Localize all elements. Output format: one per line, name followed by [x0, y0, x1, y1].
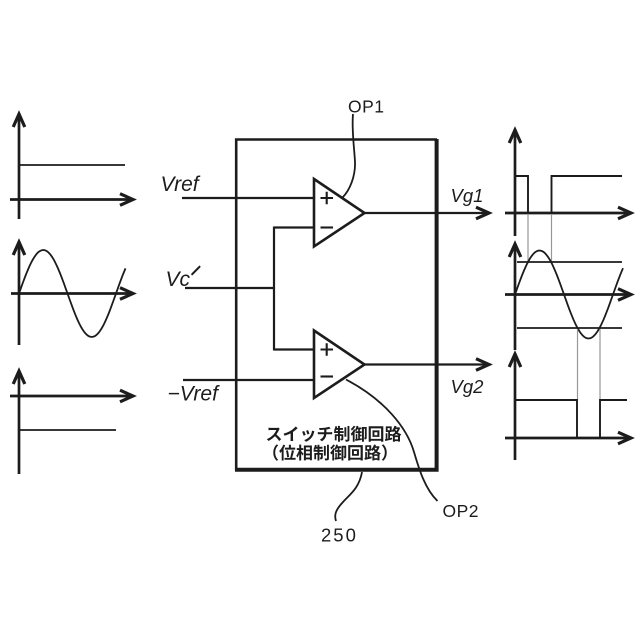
graph R3 x-axis [505, 437, 630, 440]
leader line 250 [335, 472, 362, 521]
wire minus-Vref input [183, 379, 314, 381]
op-amp OP1 plus sign [321, 192, 334, 205]
graph L3 y-axis arrowhead [13, 371, 25, 384]
wire OP2 output Vg2 [365, 363, 488, 365]
wire OP2 non-inverting input [274, 348, 314, 350]
graph L2 (Vc sine) y-axis [18, 244, 21, 345]
op-amp OP1 [314, 179, 365, 247]
block caption line 2 (phase control circuit) [273, 444, 386, 460]
graph R3 y-axis arrowhead [509, 354, 521, 367]
graph R3 x-axis arrowhead [618, 432, 631, 444]
svg-text:OP1: OP1 [348, 97, 385, 117]
block caption line 1 (switch control circuit) [267, 426, 402, 442]
graph R3 (Vg2) y-axis [514, 356, 517, 460]
graph R2 sine wave [515, 251, 623, 339]
arrowhead Vg1 [476, 207, 489, 219]
graph R1 y-axis arrowhead [509, 130, 521, 143]
guide line t3 [577, 329, 579, 400]
graph L2 sine wave [19, 250, 126, 337]
wire vertical tee from Vc to both op-amps [273, 227, 275, 351]
block 250 box (right+bottom heavy edges) [235, 139, 437, 470]
op-amp OP2 minus sign [321, 375, 334, 377]
graph R2 y-axis arrowhead [509, 244, 521, 257]
graph R1 (Vg1) y-axis [514, 132, 517, 236]
graph L3 (minus Vref level) y-axis [18, 373, 21, 474]
graph R1 x-axis [505, 212, 630, 215]
graph R1 x-axis arrowhead [618, 207, 631, 219]
graph L1 y-axis arrowhead [13, 114, 25, 127]
graph R3 Vg2 square wave [515, 400, 627, 438]
arrowhead Vg2 [476, 359, 489, 371]
graph L1 (Vref level) y-axis [18, 116, 21, 219]
svg-text:OP2: OP2 [443, 501, 480, 521]
graph L2 x-axis [11, 292, 132, 295]
guide line t2 [551, 214, 553, 262]
svg-text:Vref: Vref [161, 173, 201, 196]
leader line OP1 [343, 114, 356, 198]
wire OP1 output Vg1 [365, 212, 488, 214]
op-amp OP2 [314, 331, 365, 399]
leader line OP2 [346, 380, 438, 502]
graph L1 x-axis [10, 198, 132, 201]
svg-text:250: 250 [321, 525, 358, 546]
block 250 box (left+top edges) [236, 140, 437, 471]
svg-text:Vc: Vc [166, 268, 191, 291]
graph R2 minus-Vref threshold line [517, 327, 622, 329]
graph R2 x-axis [505, 293, 630, 296]
svg-text:−Vref: −Vref [168, 383, 221, 406]
graph L1 Vref level line [19, 164, 125, 166]
guide line t4 [599, 329, 601, 400]
op-amp OP1 minus sign [321, 226, 334, 228]
wire OP1 inverting input [274, 226, 314, 228]
graph L3 x-axis arrowhead [120, 390, 133, 402]
graph R2 Vref threshold line [517, 261, 622, 263]
graph L3 minus-Vref level line [19, 429, 116, 431]
svg-text:Vg1: Vg1 [451, 185, 484, 206]
op-amp OP2 plus sign [321, 343, 334, 356]
graph R2 x-axis arrowhead [618, 289, 631, 301]
graph L2 y-axis arrowhead [13, 242, 25, 255]
svg-text:Vg2: Vg2 [451, 376, 485, 397]
graph L2 x-axis arrowhead [120, 288, 133, 300]
graph L1 x-axis arrowhead [120, 194, 133, 206]
graph R1 Vg1 square wave [515, 176, 622, 213]
guide line t1 [527, 214, 529, 262]
graph R2 (Vc sine with thresholds) y-axis [514, 246, 517, 350]
wire Vc input [185, 287, 275, 289]
wire Vref input [182, 197, 314, 199]
graph L3 x-axis [10, 395, 132, 398]
